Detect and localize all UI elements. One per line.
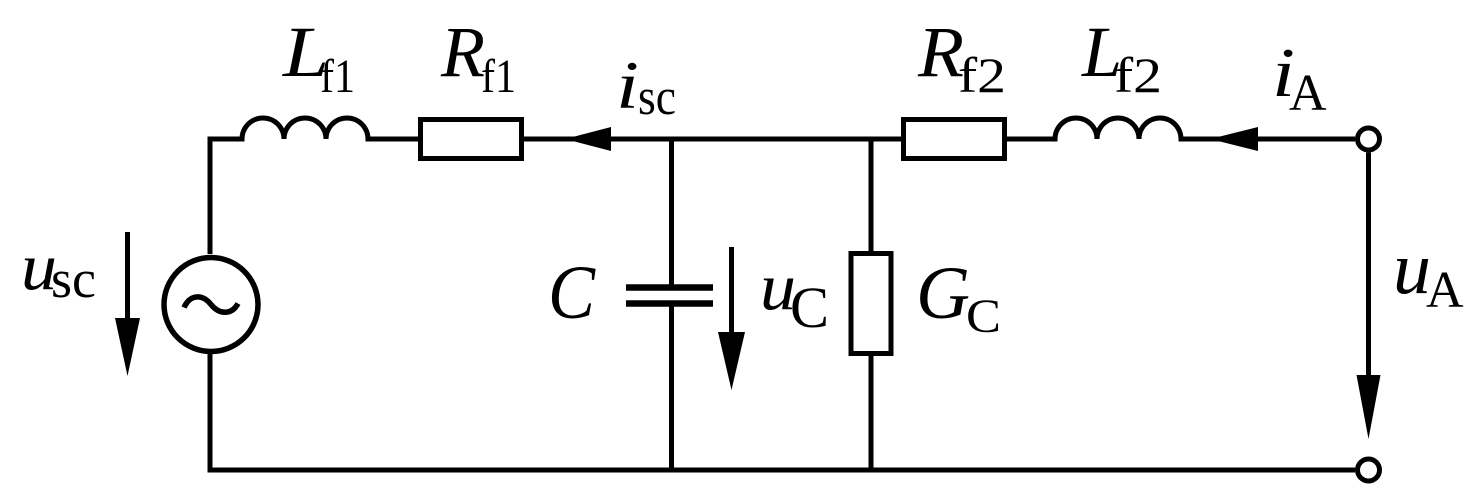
svg-text:R: R xyxy=(917,12,964,92)
svg-text:f2: f2 xyxy=(1114,47,1162,103)
svg-text:G: G xyxy=(916,252,970,335)
svg-text:f2: f2 xyxy=(958,47,1006,103)
svg-text:i: i xyxy=(616,47,639,123)
svg-text:C: C xyxy=(966,290,1001,343)
svg-text:C: C xyxy=(790,275,829,340)
svg-text:R: R xyxy=(440,12,485,92)
svg-text:f1: f1 xyxy=(320,50,355,103)
svg-text:C: C xyxy=(548,251,596,335)
svg-text:f1: f1 xyxy=(481,50,516,103)
svg-text:sc: sc xyxy=(51,249,96,309)
svg-text:A: A xyxy=(1426,262,1464,319)
svg-text:sc: sc xyxy=(638,69,676,126)
svg-text:A: A xyxy=(1289,65,1327,122)
